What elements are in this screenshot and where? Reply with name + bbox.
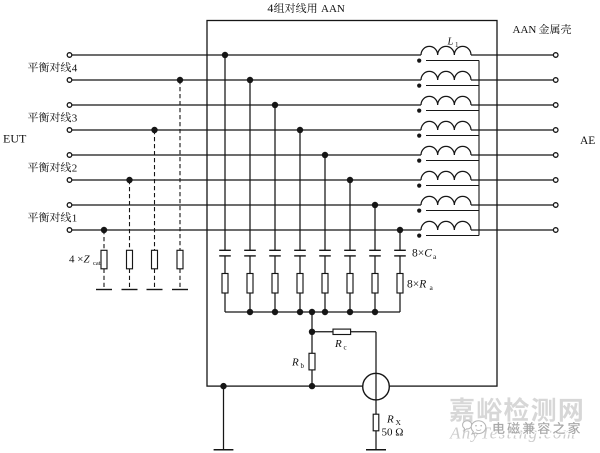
resistor Ra-7 — [372, 274, 378, 294]
junction wire 4 / branch 4 — [297, 127, 303, 133]
svg-text:cat: cat — [93, 260, 101, 267]
resistor Ra-1 — [222, 274, 228, 294]
wire cap to resistor 3 — [274, 256, 276, 274]
label pair 4 — [28, 62, 78, 74]
svg-text:AE: AE — [580, 135, 595, 147]
capacitor Ca-3 — [269, 250, 281, 256]
wire 8 (EUT side) — [72, 229, 421, 231]
dashed lead to ground — [129, 269, 131, 290]
wire cap to resistor 8 — [399, 256, 401, 274]
branch 6 drop wire — [349, 180, 351, 250]
terminal EUT line 2 — [67, 78, 72, 83]
polarity dot 1 — [417, 59, 421, 63]
polarity dot 3 — [417, 109, 421, 113]
terminal AE line 7 — [553, 203, 558, 208]
bus junction x=350 — [347, 309, 353, 315]
wire resistor to bus 2 — [249, 293, 251, 312]
core line 6 — [426, 185, 479, 187]
bus junction x=375 — [372, 309, 378, 315]
AAN enclosure box (metal shell) — [207, 21, 497, 387]
svg-text:4: 4 — [267, 1, 273, 15]
dashed lead to ground — [103, 269, 105, 290]
wire Rc to corner — [351, 331, 376, 333]
terminal EUT line 8 — [67, 228, 72, 233]
wire 4 (EUT side) — [72, 129, 421, 131]
choke winding L1-4 — [421, 121, 471, 130]
summing bus — [225, 311, 400, 313]
terminal AE line 6 — [553, 178, 558, 183]
choke winding L1-7 — [421, 196, 471, 205]
wire resistor to bus 4 — [299, 293, 301, 312]
resistor Ra-6 — [347, 274, 353, 294]
core line 8 — [426, 235, 479, 237]
choke winding L1-3 — [421, 96, 471, 105]
terminal EUT line 3 — [67, 103, 72, 108]
wire resistor to bus 1 — [224, 293, 226, 312]
svg-text:2: 2 — [72, 162, 78, 174]
junction wire 3 / branch 3 — [272, 102, 278, 108]
terminal EUT line 6 — [67, 178, 72, 183]
watermark EMC home text — [494, 422, 581, 434]
wire cap to resistor 1 — [224, 256, 226, 274]
terminal AE line 3 — [553, 103, 558, 108]
dashed drop from wire 2 — [179, 80, 181, 250]
polarity dot 8 — [417, 234, 421, 238]
svg-text:R: R — [386, 414, 394, 426]
junction wire 2 / Zcat branch — [177, 77, 183, 83]
svg-text:EUT: EUT — [3, 132, 27, 146]
junction wire 1 / branch 1 — [222, 52, 228, 58]
wire to Rc — [312, 331, 333, 333]
junction wire 8 / branch 8 — [397, 227, 403, 233]
resistor Zcat — [177, 250, 183, 268]
junction wire 2 / branch 2 — [247, 77, 253, 83]
polarity dot 6 — [417, 184, 421, 188]
wire resistor to bus 6 — [349, 293, 351, 312]
wire 6 (EUT side) — [72, 179, 421, 181]
wire 3 (AE side) — [471, 104, 553, 106]
wire cap to resistor 6 — [349, 256, 351, 274]
polarity dot 7 — [417, 209, 421, 213]
svg-text:1: 1 — [455, 41, 459, 49]
resistor Ra-5 — [322, 274, 328, 294]
capacitor Ca-6 — [344, 250, 356, 256]
wire cap to resistor 5 — [324, 256, 326, 274]
branch 3 drop wire — [274, 105, 276, 250]
junction bottom left ground tap — [220, 383, 226, 389]
label pair 3 — [28, 112, 78, 124]
core line 1 — [426, 60, 479, 62]
bus junction x=250 — [247, 309, 253, 315]
ground lead left — [223, 386, 225, 450]
wire 3 (EUT side) — [72, 104, 421, 106]
svg-text:1: 1 — [72, 212, 78, 224]
label pair 1 — [28, 212, 77, 224]
choke winding L1-8 — [421, 221, 471, 230]
terminal AE line 1 — [553, 53, 558, 58]
terminal AE line 4 — [553, 128, 558, 133]
resistor Ra-4 — [297, 274, 303, 294]
terminal EUT line 7 — [67, 203, 72, 208]
choke winding L1-5 — [421, 146, 471, 155]
choke winding L1-1 — [421, 46, 471, 55]
branch 2 drop wire — [249, 80, 251, 250]
capacitor Ca-4 — [294, 250, 306, 256]
resistor Zcat — [127, 250, 133, 268]
terminal AE line 8 — [553, 228, 558, 233]
wire 5 (EUT side) — [72, 154, 421, 156]
ground RX — [366, 449, 386, 451]
ground Zcat-8 — [96, 289, 112, 291]
resistor Rb — [309, 353, 315, 370]
measuring port (source circle) — [363, 373, 390, 400]
capacitor Ca-2 — [244, 250, 256, 256]
wire 5 (AE side) — [471, 154, 553, 156]
svg-text:c: c — [344, 344, 347, 352]
dashed lead to ground — [179, 269, 181, 290]
wire cap to resistor 7 — [374, 256, 376, 274]
resistor Zcat — [152, 250, 158, 268]
label pair 2 — [28, 162, 77, 174]
junction Rc tap — [309, 329, 315, 335]
svg-text:50 Ω: 50 Ω — [382, 427, 404, 439]
wire 1 (AE side) — [471, 54, 553, 56]
wire resistor to bus 8 — [399, 293, 401, 312]
wire 4 (AE side) — [471, 129, 553, 131]
bus junction x=300 — [297, 309, 303, 315]
wire cap to resistor 2 — [249, 256, 251, 274]
branch 7 drop wire — [374, 205, 376, 250]
center tap wire bus to bottom — [311, 312, 313, 386]
wire resistor to bus 5 — [324, 293, 326, 312]
ground left tap — [214, 449, 234, 451]
choke winding L1-2 — [421, 71, 471, 80]
capacitor Ca-8 — [394, 250, 406, 256]
junction Rb bottom — [309, 383, 315, 389]
wire cap to resistor 4 — [299, 256, 301, 274]
core line 7 — [426, 210, 479, 212]
branch 1 drop wire — [224, 55, 226, 250]
svg-text:8×R: 8×R — [407, 279, 426, 291]
label 4-pair AAN (top) — [267, 1, 344, 15]
resistor Ra-2 — [247, 274, 253, 294]
terminal EUT line 1 — [67, 53, 72, 58]
terminal EUT line 5 — [67, 153, 72, 158]
core line 2 — [426, 85, 479, 87]
terminal AE line 5 — [553, 153, 558, 158]
common core bus — [478, 61, 480, 236]
svg-text:L: L — [447, 37, 454, 48]
choke winding L1-6 — [421, 171, 471, 180]
svg-text:b: b — [301, 362, 305, 370]
core line 3 — [426, 110, 479, 112]
svg-text:3: 3 — [72, 112, 78, 124]
dashed drop from wire 4 — [154, 130, 156, 250]
junction wire 4 / Zcat branch — [151, 127, 157, 133]
wire resistor to bus 7 — [374, 293, 376, 312]
svg-text:AAN: AAN — [321, 3, 345, 15]
svg-text:AAN: AAN — [513, 24, 537, 36]
watermark chat icon — [463, 421, 486, 434]
svg-text:R: R — [291, 357, 299, 369]
junction wire 5 / branch 5 — [322, 152, 328, 158]
svg-text:4: 4 — [72, 62, 78, 74]
polarity dot 5 — [417, 159, 421, 163]
resistor Zcat — [101, 250, 107, 268]
branch 4 drop wire — [299, 130, 301, 250]
resistor RX — [373, 414, 379, 431]
ground Zcat-2 — [172, 289, 188, 291]
polarity dot 4 — [417, 134, 421, 138]
junction wire 7 / branch 7 — [372, 202, 378, 208]
resistor Rc — [333, 329, 351, 334]
dashed lead to ground — [154, 269, 156, 290]
junction wire 6 / branch 6 — [347, 177, 353, 183]
svg-text:R: R — [334, 338, 342, 350]
junction wire 6 / Zcat branch — [126, 177, 132, 183]
capacitor Ca-5 — [319, 250, 331, 256]
wire 2 (AE side) — [471, 79, 553, 81]
core line 5 — [426, 160, 479, 162]
terminal AE line 2 — [553, 78, 558, 83]
polarity dot 2 — [417, 84, 421, 88]
ground Zcat-6 — [122, 289, 138, 291]
svg-text:8×C: 8×C — [412, 248, 432, 260]
vertical through port — [375, 332, 377, 414]
wire 2 (EUT side) — [72, 79, 421, 81]
dashed drop from wire 6 — [129, 180, 131, 250]
bus junction x=275 — [272, 309, 278, 315]
resistor Ra-8 — [397, 274, 403, 294]
bus junction x=312 — [309, 309, 315, 315]
wire 7 (AE side) — [471, 204, 553, 206]
branch 5 drop wire — [324, 155, 326, 250]
core line 4 — [426, 135, 479, 137]
wire 1 (EUT side) — [72, 54, 421, 56]
bus junction x=325 — [322, 309, 328, 315]
ground Zcat-4 — [147, 289, 163, 291]
wire 8 (AE side) — [471, 229, 553, 231]
capacitor Ca-1 — [219, 250, 231, 256]
svg-text:4 ×Z: 4 ×Z — [69, 254, 90, 266]
wire resistor to bus 3 — [274, 293, 276, 312]
wire 6 (AE side) — [471, 179, 553, 181]
dashed drop from wire 8 — [103, 230, 105, 250]
branch 8 drop wire — [399, 230, 401, 250]
resistor Ra-3 — [272, 274, 278, 294]
watermark big text — [450, 397, 582, 422]
junction wire 8 / Zcat branch — [101, 227, 107, 233]
wire 7 (EUT side) — [72, 204, 421, 206]
lead RX to ground — [375, 431, 377, 450]
capacitor Ca-7 — [369, 250, 381, 256]
terminal EUT line 4 — [67, 128, 72, 133]
label AAN metal shell — [513, 24, 572, 36]
